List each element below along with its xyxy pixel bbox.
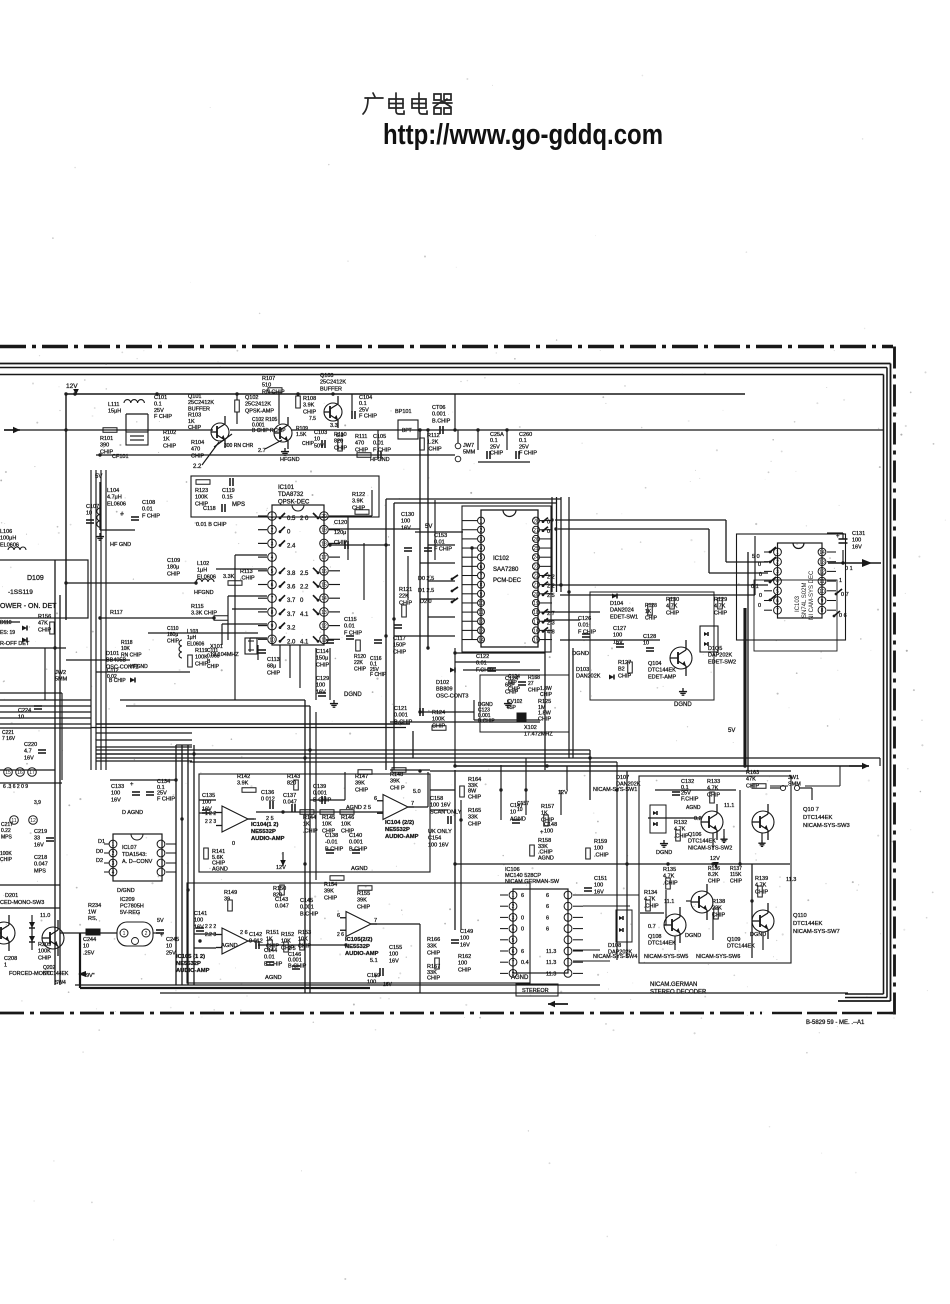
- svg-text:D1Q5: D1Q5: [708, 646, 722, 652]
- svg-text:DAN202K: DAN202K: [576, 674, 601, 680]
- svg-text:CF101: CF101: [112, 454, 129, 460]
- svg-text:4: 4: [512, 927, 515, 933]
- svg-text:3: 3: [480, 537, 483, 543]
- svg-text:0 7: 0 7: [841, 592, 849, 598]
- svg-text:27: 27: [528, 681, 534, 687]
- svg-text:3.6: 3.6: [287, 585, 296, 591]
- svg-text:10: 10: [166, 944, 172, 950]
- svg-text:CHIP: CHIP: [755, 889, 768, 895]
- svg-text:D109: D109: [27, 575, 44, 582]
- svg-text:DGND: DGND: [572, 651, 589, 657]
- svg-text:SAA7280: SAA7280: [493, 567, 519, 573]
- svg-text:2.2 3: 2.2 3: [205, 932, 216, 938]
- svg-text:D108: D108: [608, 943, 621, 949]
- svg-text:CHIP: CHIP: [730, 878, 743, 884]
- svg-text:1K: 1K: [541, 811, 548, 817]
- svg-text:24: 24: [533, 555, 539, 561]
- svg-text:7: 7: [411, 801, 414, 807]
- svg-text:C137: C137: [283, 793, 296, 799]
- svg-text:AGND: AGND: [686, 805, 701, 811]
- svg-text:12V: 12V: [558, 790, 568, 796]
- svg-text:R152: R152: [281, 932, 294, 938]
- svg-text:0.01: 0.01: [578, 623, 589, 629]
- svg-text:C221: C221: [2, 730, 14, 736]
- svg-text:CHIP: CHIP: [355, 787, 368, 793]
- svg-text:6: 6: [521, 893, 524, 899]
- svg-text:100 16V: 100 16V: [430, 803, 451, 809]
- svg-text:CHIP: CHIP: [303, 409, 316, 415]
- svg-text:1.5K: 1.5K: [296, 432, 307, 438]
- svg-text:3: 3: [776, 569, 779, 575]
- svg-text:5: 5: [776, 589, 779, 595]
- svg-text:27: 27: [533, 528, 539, 534]
- svg-text:2 6: 2 6: [337, 932, 344, 938]
- svg-text:C155: C155: [389, 945, 402, 951]
- svg-text:CHIP: CHIP: [714, 610, 727, 616]
- svg-text:NE5532P: NE5532P: [385, 827, 410, 833]
- svg-text:NICAM GERMAN-SW: NICAM GERMAN-SW: [505, 879, 560, 885]
- svg-text:CHIP: CHIP: [167, 638, 180, 644]
- svg-text:0.1: 0.1: [154, 401, 162, 407]
- svg-text:15: 15: [533, 638, 539, 644]
- svg-text:EDET-SW2: EDET-SW2: [708, 659, 736, 665]
- svg-text:19: 19: [533, 601, 539, 607]
- svg-text:Q108: Q108: [648, 934, 661, 940]
- svg-text:17: 17: [29, 770, 35, 776]
- svg-text:13: 13: [819, 560, 825, 566]
- svg-text:R155: R155: [357, 891, 370, 897]
- svg-text:12: 12: [819, 569, 825, 575]
- svg-text:0: 0: [759, 572, 762, 578]
- svg-text:NE5532P: NE5532P: [176, 961, 201, 967]
- svg-text:100: 100: [111, 791, 120, 797]
- svg-text:15: 15: [321, 583, 327, 589]
- svg-text:17.472MHZ: 17.472MHZ: [524, 732, 553, 738]
- svg-text:10: 10: [314, 437, 320, 443]
- svg-text:R123: R123: [195, 488, 208, 494]
- svg-text:3.3K: 3.3K: [223, 574, 235, 580]
- svg-text:C130: C130: [401, 512, 414, 518]
- svg-text:HF GND: HF GND: [110, 542, 131, 548]
- svg-text:R120: R120: [354, 654, 366, 660]
- svg-text:22: 22: [533, 574, 539, 580]
- svg-text:2.2: 2.2: [193, 464, 202, 470]
- svg-text:CHIP: CHIP: [528, 687, 541, 693]
- svg-text:C119: C119: [222, 488, 235, 494]
- svg-text:R102: R102: [163, 430, 176, 436]
- svg-text:7.5: 7.5: [309, 416, 316, 422]
- svg-text:6: 6: [776, 599, 779, 605]
- svg-text:1.2K: 1.2K: [427, 440, 439, 446]
- svg-text:R104: R104: [191, 440, 204, 446]
- svg-text:7: 7: [374, 918, 377, 924]
- svg-text:CT06: CT06: [432, 405, 445, 411]
- svg-text:6: 6: [546, 927, 549, 933]
- svg-text:12: 12: [321, 624, 327, 630]
- svg-text:JW1: JW1: [788, 775, 799, 781]
- svg-text:100: 100: [594, 846, 603, 852]
- svg-text:B.CHIP: B.CHIP: [300, 911, 319, 917]
- svg-text:1K: 1K: [303, 822, 310, 828]
- svg-text:100: 100: [852, 538, 861, 544]
- svg-text:0.001: 0.001: [349, 840, 363, 846]
- svg-text:CHIP: CHIP: [458, 967, 471, 973]
- svg-text:5.0: 5.0: [413, 789, 421, 795]
- svg-text:8: 8: [821, 608, 824, 614]
- svg-text:D/GND: D/GND: [117, 888, 135, 894]
- svg-text:0.01 B CHIP: 0.01 B CHIP: [196, 522, 227, 528]
- svg-text:IC101: IC101: [278, 485, 295, 491]
- svg-text:C131: C131: [852, 531, 865, 537]
- svg-text:http://www.go-gddq.com: http://www.go-gddq.com: [383, 119, 663, 151]
- svg-text:2: 2: [271, 528, 274, 534]
- svg-text:B-5829 59 - ME. .--A1: B-5829 59 - ME. .--A1: [806, 1020, 865, 1026]
- svg-text:15: 15: [5, 770, 11, 776]
- svg-text:R138: R138: [712, 899, 725, 905]
- svg-text:25V: 25V: [490, 444, 500, 450]
- svg-text:2: 2: [145, 931, 148, 937]
- svg-text:100K: 100K: [195, 495, 208, 501]
- svg-text:C114: C114: [316, 649, 329, 655]
- svg-text:C218: C218: [34, 855, 47, 861]
- svg-text:4 8: 4 8: [547, 629, 555, 635]
- svg-text:R159: R159: [594, 839, 607, 845]
- svg-text:C133: C133: [111, 784, 124, 790]
- svg-text:R139: R139: [755, 876, 768, 882]
- svg-text:20: 20: [533, 592, 539, 598]
- svg-text:10: 10: [517, 807, 523, 813]
- svg-text:11.3: 11.3: [546, 971, 556, 977]
- svg-text:MPS: MPS: [1, 834, 13, 840]
- svg-text:R162: R162: [458, 954, 471, 960]
- svg-text:150μ: 150μ: [316, 656, 328, 662]
- svg-text:R127: R127: [618, 660, 631, 666]
- svg-text:9: 9: [480, 592, 483, 598]
- svg-text:25V: 25V: [359, 407, 369, 413]
- svg-text:2 2: 2 2: [547, 575, 555, 581]
- svg-text:0: 0: [287, 530, 291, 536]
- svg-text:100: 100: [594, 883, 603, 889]
- svg-text:4: 4: [480, 546, 483, 552]
- svg-text:33K: 33K: [468, 815, 478, 821]
- svg-text:8.2K: 8.2K: [708, 872, 719, 878]
- svg-text:0.2: 0.2: [694, 816, 702, 822]
- svg-text:1K: 1K: [163, 437, 170, 443]
- svg-text:CHIP: CHIP: [167, 571, 180, 577]
- svg-text:C208: C208: [4, 956, 17, 962]
- svg-text:2.5: 2.5: [300, 571, 309, 577]
- svg-text:23: 23: [533, 564, 539, 570]
- svg-text:D AGND: D AGND: [122, 810, 143, 816]
- svg-text:R110: R110: [334, 432, 347, 438]
- svg-text:R168: R168: [528, 675, 540, 681]
- svg-text:R163: R163: [746, 770, 759, 776]
- svg-text:0: 0: [300, 598, 304, 604]
- svg-text:33K: 33K: [427, 944, 437, 950]
- svg-text:16V: 16V: [24, 755, 34, 761]
- svg-text:HFGND: HFGND: [194, 590, 214, 596]
- svg-text:F.CHIP: F.CHIP: [681, 796, 699, 802]
- svg-text:11.3: 11.3: [786, 877, 796, 883]
- svg-text:10: 10: [83, 944, 89, 950]
- svg-text:10: 10: [643, 641, 649, 647]
- svg-text:4.7K: 4.7K: [707, 786, 719, 792]
- svg-text:25V: 25V: [519, 444, 529, 450]
- svg-text:C105: C105: [373, 434, 386, 440]
- svg-text:R-OFF DET: R-OFF DET: [0, 641, 30, 647]
- svg-text:F CHIP: F CHIP: [519, 451, 537, 457]
- svg-text:12: 12: [478, 619, 484, 625]
- svg-text:5V: 5V: [728, 728, 735, 734]
- svg-text:FORCED-MONO: FORCED-MONO: [9, 971, 52, 977]
- svg-text:C108: C108: [142, 500, 155, 506]
- svg-text:3: 3: [512, 915, 515, 921]
- svg-text:IC105 (1 2): IC105 (1 2): [176, 954, 205, 960]
- svg-text:CHIP: CHIP: [38, 955, 51, 961]
- svg-text:Q101: Q101: [188, 394, 201, 400]
- svg-text:CHIP: CHIP: [267, 670, 280, 676]
- svg-text:150P: 150P: [393, 643, 406, 649]
- svg-text:UK ONLY: UK ONLY: [428, 829, 452, 835]
- svg-text:AGND: AGND: [265, 975, 282, 981]
- svg-text:B2: B2: [618, 667, 625, 673]
- svg-text:0.01: 0.01: [344, 624, 355, 630]
- svg-text:+: +: [540, 830, 544, 836]
- svg-text:R132: R132: [674, 820, 687, 826]
- svg-text:D1 2.5: D1 2.5: [418, 588, 434, 594]
- svg-text:100: 100: [458, 961, 467, 967]
- svg-text:3: 3: [271, 541, 274, 547]
- svg-text:3: 3: [112, 861, 115, 867]
- svg-text:120μ: 120μ: [334, 530, 346, 536]
- svg-text:R156: R156: [38, 614, 51, 620]
- svg-text:1: 1: [776, 550, 779, 556]
- svg-text:7: 7: [512, 960, 515, 966]
- svg-text:X102: X102: [524, 725, 537, 731]
- svg-text:R115: R115: [191, 604, 204, 610]
- svg-text:100K: 100K: [0, 851, 12, 857]
- svg-text:D0: D0: [96, 849, 103, 855]
- svg-text:AUDIO-AMP: AUDIO-AMP: [385, 834, 419, 840]
- svg-text:0 1: 0 1: [845, 566, 853, 572]
- svg-text:C129: C129: [316, 676, 329, 682]
- svg-text:16V: 16V: [111, 797, 121, 803]
- svg-text:100: 100: [544, 829, 553, 835]
- svg-text:NI CAM-SYS DEC: NI CAM-SYS DEC: [809, 570, 815, 620]
- svg-text:3.2: 3.2: [287, 626, 296, 632]
- svg-text:C101: C101: [154, 395, 167, 401]
- svg-text:2 6: 2 6: [240, 930, 248, 936]
- svg-text:0.1: 0.1: [519, 438, 527, 444]
- svg-text:25V: 25V: [166, 950, 176, 956]
- svg-text:NICAM.GERMAN: NICAM.GERMAN: [650, 982, 697, 988]
- svg-text:IC105(2/2): IC105(2/2): [345, 937, 372, 943]
- svg-text:7: 7: [480, 574, 483, 580]
- svg-text:+: +: [836, 534, 840, 540]
- svg-text:L103: L103: [187, 629, 198, 635]
- svg-text:L104: L104: [107, 488, 119, 494]
- svg-text:PCM-DEC: PCM-DEC: [493, 578, 522, 584]
- svg-text:QPSK-AMP: QPSK-AMP: [245, 408, 274, 414]
- svg-text:2.3: 2.3: [547, 620, 555, 626]
- svg-text:CHIP: CHIP: [324, 895, 337, 901]
- svg-text:13: 13: [478, 628, 484, 634]
- svg-text:300 RN CHR: 300 RN CHR: [224, 443, 254, 449]
- svg-text:100: 100: [194, 918, 203, 924]
- svg-text:4.7K: 4.7K: [663, 874, 675, 880]
- svg-text:470: 470: [355, 441, 364, 447]
- svg-text:R133: R133: [707, 779, 720, 785]
- svg-text:NICAM-SYS-SW3: NICAM-SYS-SW3: [803, 823, 850, 829]
- svg-text:OSC-CONT3: OSC-CONT3: [436, 693, 468, 699]
- svg-text:4: 4: [271, 555, 274, 561]
- svg-text:11: 11: [478, 610, 483, 616]
- svg-text:2.2: 2.2: [300, 585, 309, 591]
- svg-text:39K: 39K: [357, 898, 367, 904]
- svg-text:C224: C224: [18, 708, 31, 714]
- svg-text:NICAM-SYS-SW4: NICAM-SYS-SW4: [593, 954, 637, 960]
- svg-text:1μH: 1μH: [197, 568, 207, 574]
- svg-text:R148: R148: [390, 772, 403, 778]
- svg-text:R121: R121: [399, 587, 412, 593]
- svg-text:5 0: 5 0: [752, 554, 760, 560]
- svg-text:39K: 39K: [355, 781, 365, 787]
- svg-text:IC209: IC209: [120, 897, 135, 903]
- svg-text:CHIP: CHIP: [316, 662, 329, 668]
- svg-text:MPS: MPS: [34, 868, 46, 874]
- svg-text:L106: L106: [0, 529, 12, 535]
- svg-text:25V: 25V: [154, 408, 164, 414]
- svg-text:1: 1: [112, 842, 115, 848]
- svg-text:NE5532P: NE5532P: [251, 829, 276, 835]
- svg-text:Q109: Q109: [727, 937, 740, 943]
- svg-text:DGND: DGND: [674, 702, 692, 708]
- svg-text:2: 2: [112, 851, 115, 857]
- svg-text:18: 18: [533, 610, 539, 616]
- svg-text:11.3: 11.3: [546, 960, 556, 966]
- svg-text:BP101: BP101: [395, 409, 412, 415]
- svg-text:0.22: 0.22: [1, 828, 11, 834]
- svg-text:EDET-AMP: EDET-AMP: [648, 674, 676, 680]
- svg-text:R112: R112: [427, 433, 440, 439]
- svg-text:8: 8: [480, 583, 483, 589]
- svg-text:5: 5: [512, 938, 515, 944]
- svg-text:1: 1: [271, 514, 274, 520]
- svg-text:16V: 16V: [460, 942, 470, 948]
- svg-text:C219: C219: [34, 829, 47, 835]
- svg-text:CHIP: CHIP: [432, 723, 445, 729]
- svg-text:R103: R103: [188, 413, 201, 419]
- svg-text:6: 6: [512, 949, 515, 955]
- svg-text:0.001: 0.001: [300, 905, 314, 911]
- svg-text:R137: R137: [730, 866, 742, 872]
- svg-text:Q10 7: Q10 7: [803, 807, 819, 813]
- svg-text:CHIP: CHIP: [666, 610, 679, 616]
- svg-text:390: 390: [100, 443, 109, 449]
- svg-text:20: 20: [321, 514, 327, 520]
- svg-text:R117: R117: [110, 610, 123, 616]
- svg-text:1K: 1K: [645, 609, 652, 615]
- svg-text:100: 100: [316, 683, 325, 689]
- svg-text:CHIP: CHIP: [393, 649, 406, 655]
- svg-text:11.1: 11.1: [724, 803, 734, 809]
- svg-text:11.0: 11.0: [40, 913, 50, 919]
- svg-text:DGND: DGND: [656, 850, 672, 856]
- svg-text:NE5532P: NE5532P: [345, 944, 370, 950]
- svg-text:6: 6: [546, 893, 549, 899]
- svg-text:12V: 12V: [710, 856, 720, 862]
- svg-text:CHIP: CHIP: [508, 686, 521, 692]
- svg-text:7 16V: 7 16V: [2, 736, 16, 742]
- svg-text:18: 18: [321, 541, 327, 547]
- svg-text:-1SS119: -1SS119: [8, 589, 33, 596]
- svg-text:0: 0: [521, 915, 524, 921]
- svg-text:0.4: 0.4: [521, 960, 529, 966]
- svg-text:68P: 68P: [508, 680, 518, 686]
- svg-text:25C2412K: 25C2412K: [320, 380, 346, 386]
- svg-text:16: 16: [17, 770, 23, 776]
- svg-text:6: 6: [546, 915, 549, 921]
- svg-text:3.3: 3.3: [330, 423, 338, 429]
- svg-text:R149: R149: [224, 890, 237, 896]
- svg-text:14: 14: [478, 638, 484, 644]
- svg-text:C122: C122: [476, 654, 489, 660]
- svg-text:5V: 5V: [425, 524, 432, 530]
- svg-text:0.001: 0.001: [432, 412, 446, 418]
- svg-text:F CHIP: F CHIP: [154, 414, 172, 420]
- svg-text:6: 6: [521, 949, 524, 955]
- svg-text:Q106: Q106: [688, 832, 701, 838]
- svg-text:6: 6: [271, 583, 274, 589]
- svg-text:0: 0: [521, 927, 524, 933]
- svg-text:21: 21: [533, 583, 539, 589]
- svg-text:3.7: 3.7: [287, 612, 296, 618]
- svg-text:D103: D103: [576, 667, 589, 673]
- svg-text:CHIP: CHIP: [195, 661, 208, 667]
- svg-text:0: 0: [758, 603, 761, 609]
- svg-text:28: 28: [533, 519, 539, 525]
- svg-text:F CHIP: F CHIP: [359, 414, 377, 420]
- svg-text:47K: 47K: [38, 621, 48, 627]
- svg-text:.CHIP: .CHIP: [594, 852, 609, 858]
- svg-text:C135: C135: [202, 793, 215, 799]
- svg-text:2.7: 2.7: [258, 448, 266, 454]
- svg-text:10: 10: [478, 601, 484, 607]
- svg-text:12V: 12V: [276, 865, 286, 871]
- svg-text:C153: C153: [434, 533, 447, 539]
- svg-text:0.7: 0.7: [648, 924, 656, 930]
- svg-text:1: 1: [4, 963, 7, 969]
- svg-text:17: 17: [533, 619, 539, 625]
- svg-text:100μH: 100μH: [0, 536, 16, 542]
- svg-text:47K: 47K: [746, 777, 756, 783]
- svg-text:16V: 16V: [34, 842, 44, 848]
- svg-text:3.9K: 3.9K: [352, 499, 364, 505]
- svg-text:C148: C148: [544, 822, 557, 828]
- svg-text:CHIP: CHIP: [427, 976, 440, 982]
- svg-text:BUFFER: BUFFER: [188, 406, 210, 412]
- svg-text:C149: C149: [460, 929, 473, 935]
- svg-text:16V: 16V: [852, 544, 862, 550]
- svg-text:5V: 5V: [157, 918, 164, 924]
- svg-text:39K: 39K: [324, 889, 334, 895]
- svg-text:1μH: 1μH: [187, 635, 197, 641]
- svg-text:6: 6: [374, 796, 377, 802]
- svg-text:R157: R157: [541, 804, 554, 810]
- svg-text:9: 9: [271, 624, 274, 630]
- svg-text:TDA8732: TDA8732: [278, 492, 304, 498]
- svg-text:EDET-SW1: EDET-SW1: [610, 614, 638, 620]
